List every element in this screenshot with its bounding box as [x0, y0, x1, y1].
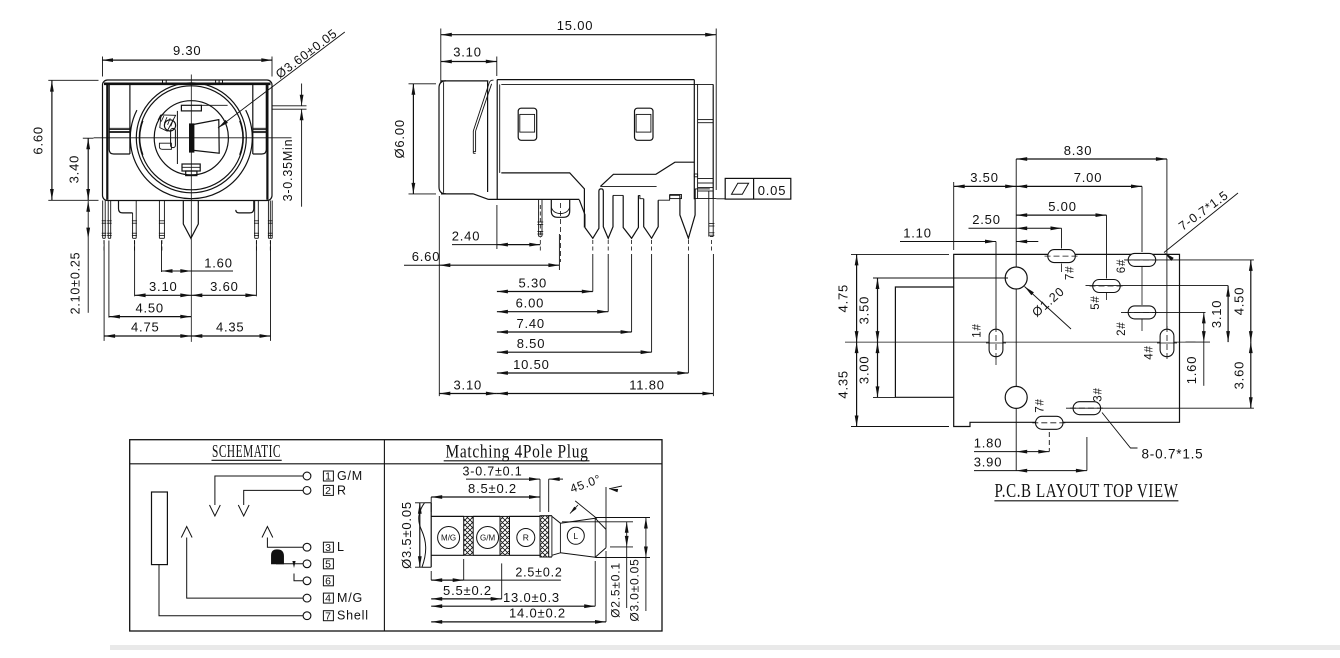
svg-text:1: 1	[325, 471, 332, 483]
side view: cavity floor and funnel	[501, 173, 584, 228]
front view dim extension lines below pins	[103, 241, 105, 341]
side view: front thin pin	[538, 199, 540, 236]
svg-text:1.80: 1.80	[974, 436, 1003, 451]
plug dim Ø3.0±0.05	[595, 517, 650, 519]
svg-text:3.10: 3.10	[1209, 300, 1224, 329]
front view: bottom tab	[182, 164, 200, 171]
pcb view dim 4.35	[851, 426, 949, 428]
plug: 45.0 degree callout	[575, 501, 597, 519]
front view: connector body outline	[103, 80, 273, 201]
front view: horizontal centerline	[94, 137, 292, 139]
front view: inner left shell wall (thick)	[106, 84, 108, 200]
svg-text:2#: 2#	[1116, 321, 1128, 335]
plug dim 2.5±0.2	[463, 559, 465, 580]
front view: right shell window	[253, 85, 266, 154]
front view: left contact bar	[171, 128, 176, 147]
plug: tip chamfer 45deg	[595, 518, 606, 557]
svg-text:R: R	[337, 483, 347, 497]
svg-text:4.50: 4.50	[135, 300, 164, 315]
pcb view dim 4.50	[1124, 259, 1254, 261]
svg-text:3.60: 3.60	[1232, 361, 1247, 390]
svg-text:4.50: 4.50	[1232, 287, 1247, 316]
svg-text:2.50: 2.50	[972, 212, 1001, 227]
front view dim 2.10±0.25	[87, 201, 89, 313]
side view dim 3.10 top	[496, 57, 498, 77]
svg-text:5: 5	[325, 558, 332, 570]
front view: lower-left tab	[159, 143, 171, 149]
pcb view dim 3.90	[1086, 437, 1088, 471]
front view: left spring hatch section	[160, 115, 176, 131]
front view: left shell window	[109, 85, 130, 154]
svg-text:3.90: 3.90	[974, 455, 1003, 470]
front view: top edge tick marks left	[162, 80, 164, 83]
side view: barrel (jack sleeve)	[439, 81, 446, 194]
svg-text:6.60: 6.60	[412, 249, 441, 264]
svg-text:Ø3.5±0.05: Ø3.5±0.05	[399, 501, 414, 569]
svg-text:3: 3	[325, 542, 332, 554]
svg-text:L: L	[573, 531, 578, 541]
plug: flange	[422, 503, 431, 567]
front view: top edge tick marks right	[215, 80, 217, 83]
svg-text:P.C.B LAYOUT TOP VIEW: P.C.B LAYOUT TOP VIEW	[995, 480, 1179, 502]
side view dim 3.10 bottom	[439, 393, 497, 395]
svg-text:Matching 4Pole Plug: Matching 4Pole Plug	[446, 443, 589, 463]
plug dim 8.5±0.2	[430, 497, 432, 512]
front view dim 4.50	[109, 316, 191, 318]
pcb view dim 4.75	[851, 253, 949, 255]
front view leader Ø3.60±0.05	[218, 32, 345, 128]
schematic: pin number boxes and labels	[323, 471, 333, 481]
plug: contact label circle L	[567, 527, 584, 544]
pcb view: horizontal centerline	[845, 341, 1196, 343]
side view: pin 1 prong	[585, 189, 601, 238]
front view dim 3-0.35Min	[273, 105, 307, 107]
plug dim 14.0±0.2	[605, 551, 607, 622]
svg-text:5#: 5#	[1090, 295, 1102, 309]
side view: barrel-body joint	[487, 81, 489, 192]
pcb view dim 3.50 top	[953, 182, 955, 250]
side view: shell window 2	[635, 108, 654, 140]
svg-text:6.00: 6.00	[516, 296, 545, 311]
schematic: terminal circles	[303, 472, 311, 480]
svg-text:R: R	[523, 533, 529, 543]
pcb view: board outline	[954, 254, 1180, 426]
svg-text:4.35: 4.35	[216, 320, 245, 335]
svg-text:7: 7	[325, 610, 332, 622]
svg-text:3.10: 3.10	[453, 45, 482, 60]
plug: barrel section G/M	[473, 515, 500, 517]
schematic: wire pin4 M/G with switch arrow	[187, 538, 303, 599]
side view dim Ø6.00	[409, 83, 437, 85]
svg-text:Shell: Shell	[337, 609, 369, 623]
svg-text:3#: 3#	[1093, 387, 1105, 401]
pcb view dim 1.10	[995, 242, 997, 329]
svg-text:5.5±0.2: 5.5±0.2	[443, 583, 492, 598]
svg-text:3-0.7±0.1: 3-0.7±0.1	[463, 464, 523, 478]
svg-text:L: L	[337, 540, 345, 554]
svg-text:Ø2.5±0.1: Ø2.5±0.1	[609, 562, 623, 618]
side view dim 10.50	[687, 254, 689, 373]
pcb view dim 2.50	[1061, 228, 1063, 248]
side view: pin centerlines (dashed)	[539, 205, 541, 238]
svg-text:3.50: 3.50	[857, 296, 872, 325]
svg-text:8.50: 8.50	[517, 336, 546, 351]
svg-text:3.60: 3.60	[210, 279, 239, 294]
plug: barrel section R	[510, 515, 541, 517]
svg-text:8-0.7*1.5: 8-0.7*1.5	[1142, 447, 1204, 462]
front view: contact channel wall	[176, 111, 178, 164]
pcb view dim 1.80	[1015, 409, 1017, 471]
pcb view dim 3.60	[1066, 407, 1254, 409]
table: outer border	[130, 440, 662, 631]
svg-text:4.75: 4.75	[131, 320, 160, 335]
svg-text:2.40: 2.40	[452, 229, 481, 244]
svg-text:6: 6	[325, 575, 332, 587]
front view: pin centerlines (dashed)	[103, 240, 105, 252]
pcb view: hole 7# top slot	[1048, 250, 1076, 263]
svg-text:3.00: 3.00	[857, 356, 872, 385]
svg-text:8.30: 8.30	[1064, 143, 1093, 158]
side view: pin 5 prong	[680, 189, 695, 238]
svg-text:SCHEMATIC: SCHEMATIC	[212, 441, 281, 461]
pcb view leader Ø1.20	[1025, 287, 1072, 330]
front view dim 4.35	[191, 335, 270, 337]
svg-text:Ø3.0±0.05: Ø3.0±0.05	[628, 558, 642, 621]
svg-text:7.40: 7.40	[516, 316, 545, 331]
plug: barrel section M/G	[431, 515, 464, 517]
schematic: wire pin6 with contact arrow	[294, 574, 303, 581]
front view: pin 3	[158, 201, 160, 239]
pcb view dim 3.00	[873, 396, 895, 398]
pcb view dim 5.00	[1106, 215, 1108, 278]
pcb view: hole 1# slot	[989, 329, 1003, 357]
plug: knurl ring 1 (hatched)	[464, 516, 474, 555]
front view: right shell legs	[267, 201, 269, 239]
faint scanner band at bottom	[110, 645, 1340, 650]
side view dim 2.40	[496, 205, 498, 249]
plug: knurl ring 3 (hatched)	[540, 516, 549, 557]
pcb view dim 7.00	[1141, 186, 1143, 252]
svg-text:M/G: M/G	[337, 591, 363, 605]
pcb view: hole 6# slot	[1128, 253, 1156, 266]
pcb view dim 3.10	[1086, 285, 1229, 287]
svg-text:4#: 4#	[1143, 345, 1155, 359]
front view: outer barrel silhouette arc r61	[130, 110, 252, 199]
pcb view: hole 3# slot	[1073, 402, 1101, 415]
front view dim 4.75	[104, 335, 191, 337]
pcb view leader 8-0.7*1.5	[1102, 413, 1138, 449]
side view: post centerline (dashed)	[559, 203, 561, 262]
svg-text:7#: 7#	[1065, 266, 1077, 280]
side view: right shell pin	[708, 191, 710, 237]
pcb view: slot centermark dashes	[1045, 255, 1079, 257]
front view: shell face circle r55	[136, 83, 246, 193]
side view dim 7.40	[631, 254, 633, 332]
front view: center contact bar (solid)	[190, 124, 194, 152]
pcb view dim 3.50 left	[873, 277, 1008, 279]
svg-text:3.50: 3.50	[970, 170, 999, 185]
svg-text:7#: 7#	[1035, 398, 1047, 412]
side view: pin 3 prong	[623, 195, 638, 238]
pcb view dim 1.60	[1121, 311, 1206, 313]
plug: tip section L	[560, 518, 595, 557]
pcb view: hole Ø1.20 bottom circle	[1005, 386, 1027, 408]
pcb view dim 8.30	[1015, 159, 1017, 267]
svg-text:10.50: 10.50	[513, 357, 550, 372]
front view: jack bore circle r37	[154, 101, 228, 175]
table: header separator line	[130, 463, 662, 465]
svg-text:1.60: 1.60	[1184, 356, 1199, 385]
svg-text:9.30: 9.30	[173, 43, 202, 58]
front view: vertical centerline	[190, 75, 192, 342]
front view: inner top edge (thick)	[104, 83, 271, 86]
svg-text:14.0±0.2: 14.0±0.2	[509, 606, 566, 621]
svg-text:G/M: G/M	[337, 469, 363, 483]
side view: right shell column	[693, 80, 695, 200]
svg-text:6#: 6#	[1116, 259, 1128, 273]
side view: pin 2 prong	[601, 189, 613, 238]
pcb view: barrel footprint notch	[895, 287, 953, 397]
schematic: sleeve bar	[152, 492, 168, 565]
front view: right mounting tab	[236, 201, 254, 213]
schematic: wire pin1 G/M with switch arrow	[215, 476, 303, 505]
front view dim 1.60	[162, 270, 234, 272]
svg-text:5.00: 5.00	[1048, 199, 1077, 214]
svg-text:3.10: 3.10	[454, 377, 483, 392]
svg-text:3.40: 3.40	[67, 155, 82, 184]
svg-text:13.0±0.3: 13.0±0.3	[503, 590, 560, 605]
svg-text:8.5±0.2: 8.5±0.2	[468, 481, 517, 496]
svg-text:5.30: 5.30	[519, 275, 548, 290]
plug dim Ø3.5±0.05	[415, 502, 425, 504]
svg-text:6.60: 6.60	[31, 126, 46, 155]
table: vertical divider	[383, 440, 385, 631]
side view dim 5.30	[592, 254, 594, 292]
plug dim 5.5±0.2	[501, 563, 503, 599]
svg-text:7.00: 7.00	[1074, 170, 1103, 185]
front view: center shield pin (pointed)	[183, 201, 198, 239]
svg-text:M/G: M/G	[441, 534, 456, 543]
side view dim 8.50	[651, 254, 653, 352]
pcb view: hole 2# slot	[1128, 306, 1156, 319]
side view: shell window 1	[518, 108, 537, 140]
svg-text:4.35: 4.35	[836, 370, 851, 399]
pcb view: hole 5# slot	[1093, 280, 1121, 293]
plug: contact label circle G/M	[477, 527, 499, 549]
schematic: wire pin3 L with switch arrow	[267, 538, 303, 548]
plug: knurl ring 2 (hatched)	[500, 516, 510, 555]
side view: latch spring	[473, 83, 489, 132]
side view dim 15.00	[440, 29, 442, 84]
svg-text:2: 2	[325, 485, 332, 497]
side view dim 6.60	[438, 196, 440, 396]
svg-text:3-0.35Min: 3-0.35Min	[281, 139, 295, 202]
side view: body top edge	[497, 79, 694, 81]
schematic: wire pin2 R with switch arrow	[244, 490, 303, 505]
schematic: wire pin5 with moving contact	[276, 563, 303, 565]
svg-text:2.5±0.2: 2.5±0.2	[515, 566, 562, 580]
front view: shell face circle r52	[139, 86, 243, 190]
side view dim 6.00	[607, 254, 609, 312]
svg-text:4: 4	[325, 593, 332, 605]
pcb view leader 7-0.7*1.5	[1164, 193, 1238, 253]
side view: bottom terraces	[600, 162, 694, 186]
side view: bottom skirt edge	[489, 198, 580, 200]
front view: pin 5	[254, 201, 256, 239]
side view: plastic post	[551, 199, 569, 217]
front view dim 9.30	[102, 57, 104, 77]
svg-text:Ø6.00: Ø6.00	[392, 119, 407, 158]
svg-text:1.10: 1.10	[903, 226, 932, 241]
front view: tip-contact top tab	[181, 105, 201, 111]
side view: pin 4 prong	[644, 199, 659, 239]
svg-text:3.10: 3.10	[149, 279, 178, 294]
front view dim 3.40	[83, 137, 94, 139]
front view: pin 2 (left tab pin)	[132, 213, 134, 238]
front view dim 3.10	[135, 294, 192, 296]
plug dim 13.0±0.3	[594, 561, 596, 606]
svg-text:2.10±0.25: 2.10±0.25	[68, 252, 82, 315]
front view dim 6.60	[48, 79, 98, 81]
svg-text:1.60: 1.60	[204, 255, 233, 270]
front view: solder tail tick marks	[102, 220, 107, 222]
pcb view: hole 4# slot	[1160, 329, 1174, 357]
plug dim Ø2.5±0.1	[562, 521, 633, 523]
plug: contact label circle M/G	[438, 527, 460, 549]
svg-text:11.80: 11.80	[629, 377, 665, 392]
front view: bore chamfer arcs r48.4	[140, 121, 143, 155]
side view flatness callout	[716, 198, 725, 200]
svg-text:4.75: 4.75	[836, 284, 851, 313]
front view: left mounting tab	[119, 201, 133, 213]
svg-text:G/M: G/M	[480, 534, 495, 543]
plug: cable-side break line	[419, 503, 426, 567]
pcb view: hole 7# bottom slot	[1036, 416, 1064, 429]
schematic: wire pin7 shell	[159, 565, 303, 616]
front view: right contact blade	[194, 120, 219, 154]
front view dim 3.60	[191, 294, 256, 296]
plug: contact label circle R	[517, 529, 535, 547]
side view: right small tab	[694, 174, 697, 177]
front view: left shell legs	[102, 201, 104, 239]
front view: inner right shell wall (thick)	[266, 84, 268, 200]
side view dim 11.80	[712, 254, 714, 396]
svg-text:1#: 1#	[972, 323, 984, 337]
plug: neck ring and taper	[549, 515, 552, 517]
svg-text:0.05: 0.05	[758, 183, 787, 198]
svg-text:15.00: 15.00	[557, 18, 594, 33]
pcb view: hole Ø1.20 top circle	[1005, 267, 1027, 289]
front view: left spring circle	[164, 120, 175, 131]
plug dim 3-0.7±0.1	[539, 479, 541, 512]
